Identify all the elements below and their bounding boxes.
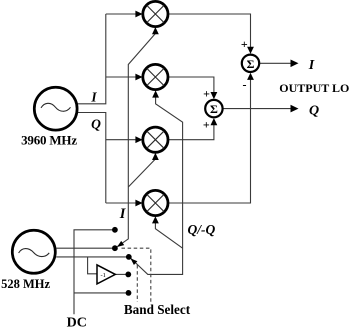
inverter amp A1 (-1) [97, 265, 115, 284]
svg-text:3960 MHz: 3960 MHz [21, 133, 77, 148]
summer S1 [242, 55, 259, 72]
wire LO I bus to mixer X1 bottom [117, 27, 159, 247]
label output Q [309, 104, 319, 119]
wire DC branch to contact dot5 [74, 292, 129, 294]
label plus S2 bottom [203, 118, 210, 132]
contact dot2 528 I [112, 245, 118, 251]
wire inverter output to contact dot4 [115, 273, 128, 275]
label Q 3960 [91, 117, 101, 132]
wire Q branch to mixer X3 [106, 136, 143, 143]
svg-text:-1: -1 [101, 272, 106, 279]
contact dot5 DC [126, 290, 132, 296]
dashed band select control to switch A [122, 248, 151, 302]
svg-text:Q: Q [91, 117, 101, 132]
wire summer S1 output arrow [259, 60, 298, 68]
dashed band select control to switch B [136, 265, 138, 302]
contact dot3 528 Q [126, 254, 132, 260]
mixer X4 [143, 190, 168, 215]
mixer X3 [143, 127, 168, 152]
oscillator 3960 MHz [34, 87, 77, 130]
label OUTPUT LO [279, 81, 349, 95]
svg-text:-: - [243, 78, 247, 92]
svg-text:OUTPUT LO: OUTPUT LO [279, 81, 349, 95]
label plus S1 top [241, 37, 248, 51]
wire mixer X4 output to summer S1 bottom [169, 73, 254, 203]
wire mixer X3 output to summer S2 bottom [169, 118, 218, 140]
wire I branch to mixer X2 [106, 74, 143, 81]
label plus S2 top [203, 87, 210, 101]
contact dot4 inverted Q [125, 272, 131, 278]
svg-text:+: + [203, 118, 210, 132]
wire LO Q/-Q bus to mixer X2 bottom [131, 90, 183, 274]
wire LO I bus branch to mixer X3 bottom [128, 153, 159, 187]
svg-text:DC: DC [67, 315, 87, 330]
label minus S1 bottom [243, 78, 247, 92]
wire tap to inverter input [88, 257, 97, 274]
svg-text:528 MHz: 528 MHz [1, 277, 50, 291]
mixer X2 [143, 64, 168, 89]
svg-text:Q/-Q: Q/-Q [188, 222, 216, 237]
label I 528 [119, 206, 127, 222]
contact dot1 DC [112, 227, 118, 233]
wire Q branch to mixer X4 [106, 200, 143, 207]
summer S2 [205, 100, 222, 117]
oscillator 528 MHz [12, 230, 55, 273]
label Band Select [124, 302, 191, 317]
wire I branch to mixer X1 [106, 11, 143, 18]
svg-text:I: I [90, 90, 97, 105]
wire summer S2 output arrow [223, 105, 299, 113]
label I 3960 [90, 90, 97, 105]
label 528 MHz [1, 277, 50, 291]
label DC [67, 315, 87, 330]
svg-text:Q: Q [309, 104, 319, 119]
wire Q from 3960 osc down vertical bus [77, 113, 106, 204]
label 3960 MHz [21, 133, 77, 148]
wire DC feed to contact dot1 [74, 230, 115, 314]
mixer X1 [143, 1, 168, 26]
wire mixer X4 bottom to Q/-Q bus [152, 216, 183, 248]
svg-text:Σ: Σ [210, 102, 218, 116]
svg-text:+: + [241, 37, 248, 51]
svg-text:Band Select: Band Select [124, 302, 191, 317]
wire mixer X1 output to summer S1 [169, 14, 254, 54]
wire I from 3960 osc to vertical bus [77, 14, 106, 104]
svg-text:I: I [308, 58, 315, 73]
label output I [308, 58, 315, 73]
svg-text:Σ: Σ [247, 57, 255, 71]
label Q/-Q [188, 222, 216, 237]
wire 528 osc Q output to contact dot3 [56, 256, 129, 258]
wire 528 osc I output to contact dot2 [56, 247, 115, 249]
svg-text:+: + [203, 87, 210, 101]
wire mixer X2 output to summer S2 [169, 77, 218, 99]
